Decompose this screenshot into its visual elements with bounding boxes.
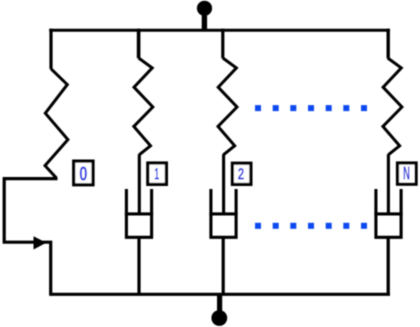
wire branch 0 left loop bbox=[4, 179, 57, 295]
force arrow bbox=[34, 236, 47, 249]
piston rod 2 bbox=[222, 154, 225, 214]
wire branch 2 bottom bbox=[222, 237, 225, 294]
top rail wire bbox=[49, 29, 390, 32]
label box 0 bbox=[74, 161, 93, 185]
dashpot N cup bbox=[376, 189, 401, 237]
wire branch N top bbox=[387, 29, 390, 59]
bottom rail wire bbox=[49, 293, 390, 296]
wire branch 2 top bbox=[221, 29, 224, 59]
wire branch 0 top bbox=[49, 29, 52, 69]
upper continuation dots bbox=[255, 105, 367, 111]
spring 2 bbox=[218, 58, 237, 155]
wire branch 1 bottom bbox=[137, 237, 140, 294]
piston rod 1 bbox=[138, 154, 141, 214]
bottom terminal node circle bbox=[211, 294, 227, 326]
label box 2 bbox=[232, 163, 251, 184]
dashpot 1 piston plate bbox=[125, 212, 153, 215]
top terminal node circle bbox=[197, 1, 212, 30]
dashpot 1 cup bbox=[126, 189, 151, 237]
lower continuation dots bbox=[255, 223, 367, 229]
svg-text:1: 1 bbox=[154, 165, 159, 184]
dashpot N piston plate bbox=[374, 212, 402, 215]
label box 1 bbox=[148, 163, 167, 184]
dashpot 2 piston plate bbox=[209, 212, 237, 215]
label box N bbox=[398, 163, 417, 184]
svg-text:N: N bbox=[403, 164, 410, 184]
spring N bbox=[383, 58, 402, 155]
wire branch N bottom bbox=[387, 237, 390, 294]
wire branch 1 top bbox=[137, 29, 141, 59]
spring 0 bbox=[45, 69, 68, 178]
dashpot 2 cup bbox=[211, 189, 236, 237]
svg-text:0: 0 bbox=[79, 164, 87, 186]
svg-text:2: 2 bbox=[238, 164, 245, 183]
piston rod N bbox=[387, 154, 390, 214]
spring 1 bbox=[134, 58, 153, 155]
